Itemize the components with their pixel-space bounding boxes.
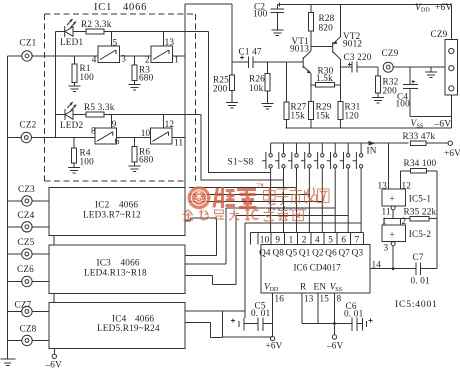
VSS rail [286,127,452,129]
VDD rail [277,5,451,40]
svg-text:10: 10 [141,128,151,138]
svg-text:15: 15 [320,293,330,303]
switch S8 [353,143,363,232]
wire: supply link to +6V terminal [223,311,273,337]
svg-text:3: 3 [121,54,126,64]
svg-text:LED1: LED1 [60,37,83,47]
svg-text:680: 680 [139,73,154,83]
svg-text:10k: 10k [249,83,264,93]
svg-text:820: 820 [319,23,334,33]
resistor R29 15k [309,102,314,120]
svg-text:CZ1: CZ1 [20,38,37,48]
IC4 4066 [49,303,185,349]
svg-text:0. 01: 0. 01 [251,308,271,318]
resistor R2 3.3k [86,29,104,34]
svg-text:SS: SS [417,124,424,130]
svg-text:+: + [390,194,395,204]
wire: row2 control line [56,114,201,116]
transistor VT2 9012 (PNP) [333,37,341,59]
wire: IC2 to IC3 chain [185,218,217,255]
svg-text:+6V: +6V [444,148,460,158]
svg-text:100: 100 [80,72,95,82]
svg-text:0. 01: 0. 01 [411,276,431,286]
svg-text:9012: 9012 [343,39,362,49]
ground below R6 [129,162,141,171]
svg-text:IC5-1: IC5-1 [409,194,432,204]
svg-text:5: 5 [328,234,333,244]
connector CZ9 socket box [445,40,458,96]
svg-text:LED4.R13~R18: LED4.R13~R18 [84,268,147,278]
svg-text:C1 47: C1 47 [239,47,262,57]
wire: ctrl line 7 (IC3 to S7) [185,216,348,285]
svg-text:R28: R28 [319,13,335,23]
wire: VT2 collector column [339,59,341,101]
svg-text:13: 13 [378,180,388,190]
connector CZ5 [8,253,49,255]
wire: pin11 node to R35 line [392,210,394,219]
svg-text:120: 120 [345,111,360,121]
capacitor C4 100 [403,67,418,116]
wire: pin12 stub [399,171,401,189]
TM mark [257,184,263,187]
connector CZ9 (jack) [383,62,393,72]
svg-text:Q8: Q8 [272,248,284,258]
resistor R35 22k [384,219,437,225]
wire: IC3-IC4 link [53,294,55,303]
analog switch U1a (pins 4,5,3) [98,46,120,62]
switch S5 [314,143,324,232]
connector CZ2 [21,132,31,142]
ground below C2 [271,30,283,36]
svg-text:9013: 9013 [290,44,309,54]
ground below R1 [69,83,81,92]
switch S1 [262,143,272,232]
connector CZ4 [8,226,49,228]
pin 8 stem to -6V terminal [334,293,336,335]
wire: pin14 line to IC5-2 output and C7 [370,268,416,270]
svg-text:9: 9 [275,234,280,244]
wire: row2 output to bus [172,137,185,139]
wire between switches row1 [120,55,152,57]
switch S7 [340,143,350,232]
wire: row1 control line [56,31,209,33]
analog switch U1d (pins 10,12,11) [151,128,173,144]
svg-text:CZ3: CZ3 [18,184,35,194]
svg-text:IC5:4001: IC5:4001 [395,299,438,310]
svg-text:CZ5: CZ5 [18,237,35,247]
resistor R4 100 [73,138,75,148]
svg-text:+6V: +6V [435,3,452,13]
svg-text:IC5-2: IC5-2 [409,229,432,239]
resistor R26 10k [267,62,269,73]
svg-text:15k: 15k [291,111,306,121]
ground on output line [425,67,437,77]
svg-text:CZ9: CZ9 [431,29,448,39]
wire: VT2 emitter to rail [339,5,341,37]
pin 16 stem to +6V terminal [272,293,274,337]
svg-text:IC1: IC1 [94,2,112,13]
svg-text:14: 14 [372,260,382,270]
resistor R34 100 [400,170,437,172]
svg-text:11: 11 [382,206,391,216]
logo disc [188,186,211,209]
svg-text:S1~S8: S1~S8 [228,158,254,168]
resistor R3 680 [134,56,136,65]
wire: CZ2 row [8,137,95,139]
IC6 CD4017 pin cell strip [251,232,364,234]
svg-text:Q2: Q2 [312,248,324,258]
capacitor C3 220 [340,62,378,73]
capacitor C7 0.01 [416,262,437,275]
ground below R32 [372,93,384,103]
ground below R3 [129,80,141,90]
switch S4 [301,143,311,232]
svg-text:CZ4: CZ4 [18,210,35,220]
svg-text:4: 4 [315,234,320,244]
row2 outlined chars 全球最大IC交易网 [183,210,304,222]
svg-text:–6V: –6V [434,120,452,130]
svg-text:Q7: Q7 [338,248,350,258]
nor gate IC5-1 [382,189,406,206]
svg-text:LED3.R7~R12: LED3.R7~R12 [83,210,141,220]
svg-text:C3 220: C3 220 [344,52,372,62]
svg-text:Q3: Q3 [352,248,364,258]
switch S6 [327,143,337,232]
wire: pin3 stub to pin14 line [392,246,394,269]
switch S2 [275,143,285,232]
svg-text:8: 8 [91,126,96,136]
IC6 CD4017 [261,245,370,293]
IC2 4066 [49,187,185,235]
svg-text:200: 200 [213,84,228,94]
svg-text:6: 6 [341,234,346,244]
svg-text:EN: EN [314,282,327,292]
node: audio bus vertical [184,4,186,187]
connector CZ8 [8,340,49,342]
svg-text:4: 4 [92,55,97,65]
svg-text:IC2: IC2 [95,200,110,210]
svg-text:R33 47k: R33 47k [403,131,436,141]
wire: ctrl line 4 (IC2 to S4) [189,194,309,196]
svg-text:R2 3.3k: R2 3.3k [81,19,112,29]
ground below R26 [262,91,274,109]
svg-text:200: 200 [383,86,398,96]
svg-text:100: 100 [396,99,411,109]
svg-text:10: 10 [260,234,270,244]
svg-text:4066: 4066 [135,314,154,324]
IN arrow [369,141,376,146]
wire: CZ9 bottom to VSS [410,95,451,128]
svg-text:Q6: Q6 [325,248,337,258]
capacitor C1 47 [240,56,253,69]
resistor R30 1.5k [311,84,340,86]
wire: VT2 base [311,45,333,47]
svg-text:+: + [390,229,395,239]
svg-text:R26: R26 [249,74,265,84]
svg-text:8: 8 [337,293,342,303]
LED1 [65,19,76,37]
wire: ctrl line 2 (IC1 row2 to S2) [201,115,284,181]
analog switch U1c (pins 8,9,6) [95,128,117,144]
svg-text:12: 12 [402,180,412,190]
svg-text:2: 2 [302,234,307,244]
-6V terminal below IC4 [53,349,55,355]
ground below R25 [226,91,238,109]
svg-text:2: 2 [402,216,407,226]
svg-text:1: 1 [289,234,294,244]
switch S3 [288,143,298,232]
svg-text:+6V: +6V [266,341,283,351]
nor gate IC5-2 [382,225,406,242]
svg-text:IC6 CD4017: IC6 CD4017 [294,263,342,273]
wire: ctrl line 3 (IC2 to S3) [189,187,297,189]
pin numbers 10 9 1 2 4 5 6 7 [260,234,360,244]
svg-text:R: R [300,282,307,292]
svg-text:LED2: LED2 [60,120,83,130]
wire: CZ1 row [8,32,99,138]
svg-text:–6V: –6V [45,360,63,369]
svg-text:IC4: IC4 [112,314,127,324]
svg-text:9: 9 [112,119,117,129]
svg-text:100: 100 [80,157,95,167]
svg-text:SS: SS [335,287,342,293]
LED2 [65,102,76,120]
resistor R28 820 [310,5,312,52]
wire between switches row2 [116,137,150,139]
wire: right feedback rail [436,171,438,269]
svg-text:7: 7 [355,234,360,244]
wire: IC2-IC3 link [53,235,55,245]
svg-text:CZ7: CZ7 [15,299,32,309]
resistor R5 3.3k [86,112,104,117]
svg-text:R5 3.3k: R5 3.3k [84,102,115,112]
connector CZ3 [8,200,49,202]
pins 13,15 stems and tie [302,293,334,324]
resistor R1 100 [74,56,76,64]
svg-text:13: 13 [304,293,314,303]
svg-text:0. 01: 0. 01 [344,309,364,319]
svg-text:15k: 15k [316,111,331,121]
analog switch U1b (pins 2,13,1) [151,46,173,62]
svg-text:IN: IN [367,146,377,156]
svg-text:4066: 4066 [121,258,140,268]
svg-text:R34 100: R34 100 [404,158,437,168]
connector CZ6 [8,281,49,283]
wire: row1 output to bus [173,55,185,57]
resistor R33 47k [411,141,427,146]
svg-text:1.5k: 1.5k [316,73,333,83]
svg-text:DD: DD [270,287,279,293]
wire: bus top jumper to C1 column [185,4,232,62]
svg-text:Q1: Q1 [299,248,311,258]
resistor R6 680 [134,138,136,147]
wire: ctrl line 6 (IC3 to S6) [185,208,335,264]
wire: ctrl line 1 (IC1 row1 to S1) [209,32,271,173]
svg-text:3: 3 [384,243,389,253]
svg-text:Q5: Q5 [286,248,298,258]
left common bus [7,56,9,359]
resistor R32 200 [377,67,379,76]
svg-text:5: 5 [113,37,118,47]
wire: output line to CZ9 socket [393,66,445,68]
wire: IN drop to IC5-1 pin13 [387,143,389,189]
svg-text:CZ6: CZ6 [17,264,34,274]
svg-text:CZ2: CZ2 [20,119,37,129]
wire: ctrl line 8 (IC4 to S8) [185,223,361,318]
IC3 4066 [49,245,185,293]
svg-text:4066: 4066 [123,2,147,13]
wire: VT1 emitter column [310,73,312,101]
connector CZ1 [22,51,32,61]
IN bus / S1-S8 top bus with R33 to +6V [271,142,449,144]
transistor VT1 9013 (NPN) [303,51,311,73]
svg-text:–6V: –6V [326,341,344,351]
wire: ctrl line 5 (IC2 to S5) [189,201,322,203]
svg-text:680: 680 [139,155,154,165]
big solid chars 维库 [214,187,257,208]
svg-text:4066: 4066 [119,200,138,210]
svg-text:CZ9: CZ9 [382,48,399,58]
connector CZ7 [8,311,49,313]
svg-text:CZ8: CZ8 [20,324,37,334]
svg-text:12: 12 [165,119,175,129]
resistor R31 120 [338,102,343,120]
resistor R27 15k [286,62,288,102]
svg-text:11: 11 [174,138,183,148]
capacitor C2 100 [271,5,285,31]
svg-text:13: 13 [165,37,175,47]
ground below R4 [68,163,80,173]
svg-text:Q4: Q4 [259,248,271,258]
svg-text:IC3: IC3 [97,258,112,268]
svg-text:C7: C7 [413,252,424,262]
wire: IC4 to bottom supply line [185,323,223,338]
ground at bottom of bus [1,359,16,366]
IC1 dashed box [45,14,196,181]
wire: C1 input line [232,61,303,63]
resistor R25 200 [231,62,233,75]
svg-text:R35 22k: R35 22k [404,206,437,216]
svg-text:LED5.R19~R24: LED5.R19~R24 [97,323,160,333]
svg-text:DD: DD [421,8,430,14]
outlined chars 电子市场网 [264,187,330,205]
svg-text:1: 1 [382,216,387,226]
svg-text:16: 16 [275,293,285,303]
svg-text:2: 2 [145,54,150,64]
WATERMARK [183,184,329,221]
svg-text:100: 100 [253,9,268,19]
